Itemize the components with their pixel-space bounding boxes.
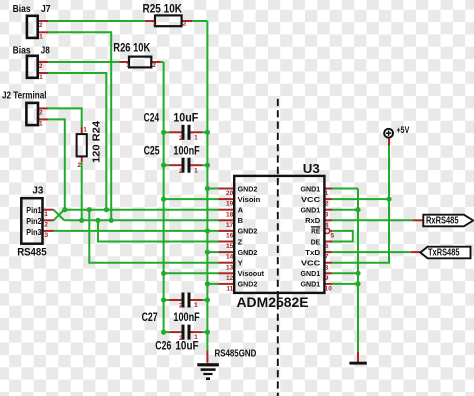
wire pin 8 VCC and +5V rail — [332, 146, 389, 263]
wire RxD to port — [332, 219, 412, 221]
wire R24 bottom down to B net — [81, 162, 83, 220]
svg-text:16: 16 — [226, 233, 234, 240]
capacitor C25 plates — [182, 158, 185, 173]
svg-text:1: 1 — [152, 21, 156, 28]
port TxRS485 pin — [411, 251, 421, 253]
svg-text:ADM2582E: ADM2582E — [237, 295, 309, 310]
wire net A to pin 18 — [64, 209, 218, 211]
connector J8 body — [27, 56, 38, 78]
svg-text:B: B — [238, 216, 244, 225]
svg-text:TxRS485: TxRS485 — [428, 248, 460, 259]
wire pin 20 GND2 — [207, 188, 218, 190]
svg-text:C25: C25 — [144, 145, 160, 157]
ground RS485GND symbol — [197, 363, 219, 366]
resistor R24 pins — [81, 127, 83, 134]
wire R25 to GND2 rail — [192, 20, 207, 22]
svg-text:15: 15 — [226, 243, 234, 250]
svg-text:RxD: RxD — [305, 216, 321, 225]
wire pin 11 GND2 — [207, 283, 218, 285]
svg-text:1: 1 — [194, 167, 198, 174]
wire J8 pin1 down to A net — [48, 73, 106, 210]
svg-text:10uF: 10uF — [173, 112, 198, 124]
svg-text:11: 11 — [226, 286, 233, 293]
svg-text:Pin1: Pin1 — [26, 205, 42, 215]
svg-text:3: 3 — [325, 211, 329, 218]
svg-text:GND2: GND2 — [238, 248, 258, 257]
wire pin 1 GND1 to rail — [332, 188, 358, 190]
svg-text:1: 1 — [325, 190, 329, 197]
svg-text:18: 18 — [226, 211, 234, 218]
wire pin 9 GND1 — [332, 272, 358, 274]
svg-text:4: 4 — [325, 222, 329, 229]
capacitor C24 plates — [182, 125, 185, 140]
wire C24 connections — [164, 131, 170, 133]
U3 right pin stubs — [324, 188, 332, 190]
svg-text:Bias: Bias — [13, 3, 31, 15]
svg-text:TxD: TxD — [305, 248, 321, 257]
resistor R25 pins — [145, 20, 155, 22]
resistor R25 body — [155, 15, 182, 26]
wire GND2 vertical rail — [206, 21, 208, 350]
wire TxD to port — [332, 251, 410, 253]
junction dots GND2 rail — [205, 186, 210, 191]
svg-text:Visoin: Visoin — [238, 195, 261, 204]
connector J3 pins — [43, 209, 54, 211]
svg-text:2: 2 — [179, 335, 183, 342]
wire pin 3 GND1 — [332, 209, 358, 211]
svg-text:RS485: RS485 — [17, 246, 46, 258]
wire A to Y link — [89, 210, 218, 263]
svg-text:100nF: 100nF — [173, 145, 199, 157]
svg-text:VCC: VCC — [301, 259, 321, 268]
capacitor C25 pins — [170, 164, 182, 166]
power +5V symbol — [384, 129, 393, 138]
wire C25 connections — [164, 164, 170, 166]
svg-text:2: 2 — [152, 62, 156, 69]
svg-text:8: 8 — [325, 264, 329, 271]
junction dot VCC — [386, 197, 391, 202]
port RxRS485 pin — [412, 219, 423, 221]
svg-text:Visoout: Visoout — [238, 269, 265, 278]
svg-text:1: 1 — [126, 62, 130, 69]
svg-text:GND1: GND1 — [301, 269, 321, 278]
svg-text:RE: RE — [311, 227, 320, 236]
svg-text:5: 5 — [331, 233, 335, 240]
svg-text:RS485GND: RS485GND — [215, 348, 257, 359]
capacitor C27 plates — [182, 293, 185, 308]
svg-text:17: 17 — [226, 222, 234, 229]
svg-text:GND1: GND1 — [301, 280, 321, 289]
port RxRS485 body — [423, 215, 473, 227]
svg-text:Bias: Bias — [13, 44, 31, 56]
svg-text:9: 9 — [325, 275, 329, 282]
svg-text:U3: U3 — [303, 162, 320, 176]
connector J7 pins — [38, 20, 49, 22]
svg-text:GND1: GND1 — [301, 184, 321, 193]
svg-text:J8: J8 — [41, 44, 50, 56]
connector J8 pins — [38, 61, 49, 63]
svg-text:Z: Z — [238, 237, 243, 246]
svg-text:2: 2 — [39, 63, 43, 70]
capacitor C24 pins — [170, 131, 182, 133]
connector J2 body — [26, 103, 38, 125]
svg-text:120 R24: 120 R24 — [91, 121, 103, 163]
svg-text:GND2: GND2 — [238, 184, 258, 193]
svg-text:1: 1 — [39, 74, 43, 81]
svg-text:2: 2 — [325, 201, 329, 208]
svg-text:R25 10K: R25 10K — [143, 4, 183, 16]
svg-text:2: 2 — [183, 21, 187, 28]
svg-text:R26 10K: R26 10K — [113, 43, 151, 55]
svg-text:GND1: GND1 — [301, 206, 321, 215]
wire pin 10 GND1 — [332, 283, 358, 285]
wire Visoout pin 12 — [164, 272, 219, 274]
wire RE DE loop — [332, 231, 353, 242]
svg-text:19: 19 — [226, 201, 234, 208]
svg-text:DE: DE — [311, 237, 321, 246]
wire C26 connections — [164, 331, 170, 333]
isolation barrier dashed line — [277, 99, 279, 396]
svg-text:3: 3 — [45, 232, 49, 239]
ground GND1 symbol — [349, 362, 366, 365]
wire GND1 vertical rail — [357, 189, 359, 352]
svg-text:1: 1 — [194, 302, 198, 309]
svg-text:C27: C27 — [142, 312, 158, 324]
svg-text:J7: J7 — [41, 3, 51, 15]
svg-text:2: 2 — [77, 162, 81, 169]
wire Visoin pin 19 — [164, 198, 219, 200]
svg-text:Pin2: Pin2 — [26, 216, 42, 226]
svg-text:7: 7 — [325, 254, 329, 261]
capacitor C27 pins — [170, 299, 182, 301]
resistor R24 body — [77, 134, 87, 156]
svg-text:6: 6 — [325, 243, 329, 250]
svg-text:A: A — [238, 206, 244, 215]
svg-text:VCC: VCC — [301, 195, 321, 204]
wire C27 connections — [164, 299, 170, 301]
wire J8 pin2 to R26 — [48, 61, 119, 63]
svg-text:20: 20 — [226, 190, 234, 197]
wire J2 pin2 to R24 top — [48, 108, 81, 127]
capacitor C26 pins — [170, 331, 182, 333]
resistor R26 body — [129, 57, 151, 68]
ground GND1 pin stub — [357, 352, 359, 363]
wire J3 pin3 GND2 to pin 16 — [54, 230, 219, 232]
junction dots capacitor rails — [161, 130, 166, 135]
wire pin 14 GND2 — [207, 251, 218, 253]
svg-text:1: 1 — [44, 211, 48, 218]
wire J7 pin2 to R25 — [48, 20, 144, 22]
U3 left pin stubs — [219, 188, 235, 190]
wire iso 3V3 vertical rail — [163, 62, 165, 332]
U3 pin 5 inversion bubble — [325, 228, 330, 233]
connector J2 pins — [38, 107, 48, 109]
svg-text:2: 2 — [39, 22, 43, 29]
junction dots net B — [79, 218, 84, 223]
svg-text:100nF: 100nF — [173, 312, 199, 324]
svg-text:10uF: 10uF — [175, 341, 198, 353]
svg-text:13: 13 — [226, 264, 234, 271]
junction dots GND1 rail — [355, 207, 360, 212]
svg-text:12: 12 — [226, 275, 234, 282]
svg-text:1: 1 — [39, 121, 43, 128]
svg-text:1: 1 — [39, 34, 43, 41]
svg-text:J2 Terminal: J2 Terminal — [2, 90, 47, 102]
svg-text:J3: J3 — [32, 184, 43, 196]
wire J3 crossover X — [54, 210, 65, 221]
svg-text:2: 2 — [179, 135, 183, 142]
svg-text:2: 2 — [179, 168, 183, 175]
svg-text:Y: Y — [238, 259, 243, 268]
connector J3 body — [21, 198, 42, 244]
svg-text:2: 2 — [39, 109, 43, 116]
svg-text:1: 1 — [83, 126, 87, 133]
svg-text:GND2: GND2 — [238, 280, 258, 289]
svg-text:1: 1 — [194, 334, 198, 341]
ground RS485GND pin stub — [206, 350, 208, 363]
svg-text:RxRS485: RxRS485 — [426, 215, 459, 226]
svg-text:2: 2 — [44, 222, 48, 229]
wire pin 2 VCC to +5V rail — [332, 198, 389, 200]
wire J2 pin1 down to A net — [48, 119, 65, 209]
connector J7 body — [27, 16, 38, 38]
wire net B to pin 17 — [64, 219, 218, 221]
svg-text:14: 14 — [226, 254, 234, 261]
capacitor C26 plates — [182, 325, 185, 340]
svg-text:+5V: +5V — [397, 125, 410, 135]
junction dots net A — [62, 207, 67, 212]
svg-text:Pin3: Pin3 — [26, 227, 42, 237]
+5V pin stub — [388, 138, 390, 146]
wire B to Z link — [98, 220, 219, 241]
port TxRS485 body — [420, 247, 470, 259]
svg-text:2: 2 — [179, 303, 183, 310]
svg-text:C26: C26 — [155, 341, 171, 353]
wire R26 to iso rail — [161, 61, 164, 63]
resistor R26 pins — [119, 61, 129, 63]
svg-text:10: 10 — [325, 286, 333, 293]
op-amp U3 body ADM2582E — [234, 176, 324, 293]
svg-text:C24: C24 — [144, 112, 160, 124]
wire J7 pin1 down to B net — [48, 32, 111, 220]
svg-text:GND2: GND2 — [238, 227, 258, 236]
svg-text:1: 1 — [194, 134, 198, 141]
